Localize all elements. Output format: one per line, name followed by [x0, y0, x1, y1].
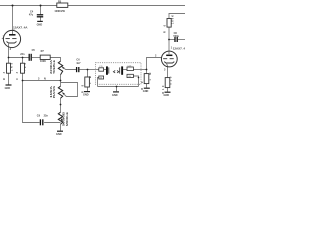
wire B+ rail: [0, 5, 185, 7]
ground under R9: [143, 88, 150, 93]
node grid junction: [146, 69, 148, 71]
svg-text:GND: GND: [164, 94, 170, 97]
svg-text:R10: R10: [162, 85, 165, 94]
svg-text:47u: 47u: [29, 13, 34, 16]
wire box right gnd stub: [133, 76, 138, 87]
wire tube1 cathode: [8, 44, 10, 58]
wire supply feed right edge: [169, 14, 185, 19]
svg-text:500p: 500p: [173, 35, 179, 38]
svg-text:1K5: 1K5: [11, 62, 14, 71]
ground under C4: [37, 21, 43, 26]
wire tube2 plate lead: [168, 27, 170, 51]
node C4 on rail: [40, 5, 42, 7]
wire bass feed: [23, 80, 61, 82]
potentiometer MIDDLE 500K: [58, 112, 69, 126]
resistor R8 1M (to gnd): [81, 76, 92, 93]
resistor R10 820 (tube2 cathode): [162, 76, 173, 94]
wire tube2 cathode: [167, 65, 169, 77]
svg-text:100K/2W: 100K/2W: [54, 10, 65, 13]
svg-text:100K: 100K: [171, 15, 174, 24]
svg-text:MIDDLE: MIDDLE: [66, 112, 69, 126]
ground under box: [112, 92, 119, 97]
resistor R3 1K5 (cathode): [3, 62, 14, 80]
wire R7 to stack corner: [50, 58, 60, 62]
svg-text:12AX7_4A: 12AX7_4A: [13, 26, 28, 30]
wire box gnd drop: [116, 87, 118, 92]
wire stack bass to middle: [60, 98, 62, 112]
capacitor C5 22n (coupling): [20, 49, 35, 61]
svg-text:22n: 22n: [44, 114, 49, 117]
wire box gnd rail: [98, 86, 139, 88]
svg-text:GND: GND: [37, 23, 43, 26]
svg-text:4n7: 4n7: [76, 62, 81, 65]
wire cathode row: [9, 57, 29, 59]
svg-text:GND: GND: [5, 87, 11, 90]
node junction dots: [8, 5, 170, 106]
ground under R10: [164, 92, 171, 97]
ground under middle pot: [56, 131, 63, 136]
node tube1 plate on rail: [12, 5, 14, 7]
wire tube2 grid: [147, 58, 162, 70]
node R8 tap: [87, 69, 89, 71]
wire C4 top: [40, 6, 42, 15]
wire R3 bottom: [8, 73, 10, 84]
wire R9 bottom: [146, 84, 148, 88]
wire tube1 grid stub: [2, 38, 4, 40]
wire C5 to R7: [32, 57, 40, 59]
wire middle pot wiper: [61, 118, 64, 124]
mating arrows: [113, 71, 118, 73]
node stack mid junction: [60, 104, 62, 106]
capacitor C9 22n (bass): [37, 114, 49, 125]
wire R8 top: [87, 70, 89, 78]
wire box right exit: [133, 69, 146, 71]
tube V1 12AX7_4A: [3, 26, 29, 51]
svg-text:22n: 22n: [20, 53, 25, 56]
wire C3 top: [22, 58, 24, 64]
wire R10 bottom: [167, 88, 169, 92]
resistor R9 1M (tube2 grid): [141, 73, 152, 90]
wire treble cap to box: [80, 69, 96, 71]
wire R8 bottom: [87, 87, 89, 91]
svg-text:820: 820: [170, 76, 173, 85]
potentiometer BASS 1M: [50, 85, 65, 98]
wire treble wiper: [62, 67, 76, 70]
wire C9 to middle pot: [44, 122, 60, 124]
node bass feed split: [22, 80, 24, 82]
svg-text:100K: 100K: [40, 60, 46, 63]
svg-text:BASS: BASS: [53, 85, 56, 98]
svg-text:GND: GND: [143, 90, 149, 93]
gnd pin box right: [127, 74, 133, 78]
svg-text:12AX7_4B: 12AX7_4B: [173, 47, 185, 51]
svg-text:GND: GND: [56, 133, 62, 136]
wire stack treble to bass: [60, 75, 62, 86]
wire C4 bottom: [40, 17, 42, 21]
wire R9 top: [146, 70, 148, 74]
ground under R8: [83, 92, 90, 97]
node C3 tap: [22, 57, 24, 59]
resistor R5 100K/2W on rail: [54, 1, 67, 13]
svg-text:TREBLE: TREBLE: [53, 60, 56, 74]
resistor R12 (box right): [127, 65, 133, 70]
capacitor C4 47u: [29, 10, 43, 16]
wire tube1 plate lead: [12, 6, 14, 35]
resistor R6 100K (tube2 plate): [164, 15, 175, 33]
node box gnd rail center: [116, 86, 118, 88]
node plate tap: [168, 39, 170, 41]
ground under R3: [5, 85, 12, 90]
connector pin X1-left: [106, 66, 109, 74]
wire C3 bottom long: [23, 73, 40, 122]
gnd pin box left: [99, 76, 104, 80]
capacitor C6 4n7 (treble): [76, 59, 81, 73]
wire C8 out to edge: [178, 39, 185, 41]
wire bass pot loop: [61, 83, 78, 97]
wire plate to C8: [169, 39, 175, 41]
svg-text:GND: GND: [112, 94, 118, 97]
node stack top of bass: [60, 80, 62, 82]
svg-text:GND: GND: [83, 94, 89, 97]
wire box left entry: [96, 69, 99, 71]
connector block dashed box: [95, 63, 141, 85]
tube V2 12AX7_4B: [155, 47, 188, 72]
wire stack middle to gnd: [60, 124, 62, 131]
resistor R7 100K: [40, 50, 50, 63]
node cathode junction: [8, 57, 10, 59]
node box right gnd pin: [138, 77, 140, 79]
wire box right pin to R: [123, 69, 127, 71]
wire box left gnd pin: [98, 78, 99, 87]
potentiometer TREBLE 220K: [50, 60, 65, 75]
resistor R11 (box left): [99, 66, 104, 71]
capacitor C8 500p (bright): [173, 32, 179, 42]
connector pin X1-right: [120, 66, 123, 74]
wire R3 top: [8, 58, 10, 64]
svg-text:N: N: [44, 78, 46, 81]
capacitor C3 (cathode bypass): [16, 62, 27, 80]
wire box left R to pin: [104, 69, 106, 71]
